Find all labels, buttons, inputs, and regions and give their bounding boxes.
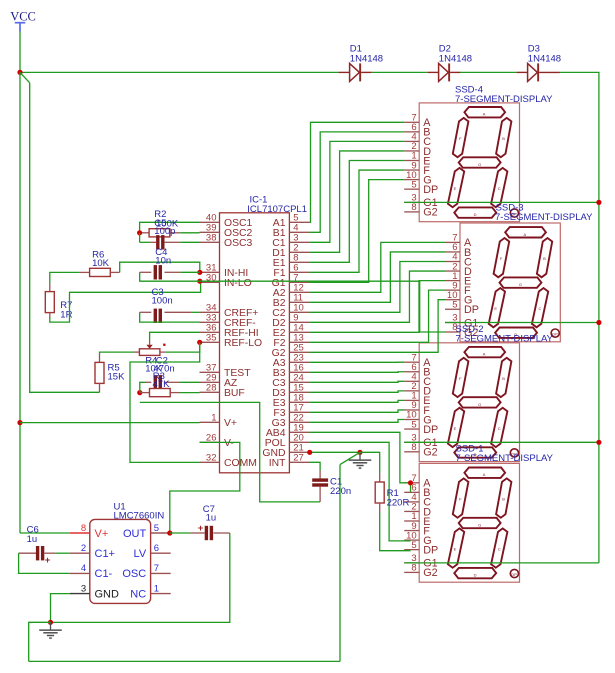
junction U1 ground	[48, 620, 53, 625]
wire D2-D3	[460, 71, 517, 73]
wire AZ riser	[140, 382, 146, 392]
svg-text:10n: 10n	[155, 256, 171, 267]
power terminal VCC	[10, 10, 36, 32]
junction OSC node	[137, 230, 142, 235]
wire IC POL to SSD-1 G	[309, 442, 410, 541]
svg-text:G2: G2	[423, 447, 437, 459]
junction R3 node	[137, 390, 142, 395]
svg-text:2: 2	[81, 543, 86, 554]
wire REF-LO to COMM	[130, 342, 200, 462]
svg-text:IN-LO: IN-LO	[224, 278, 252, 289]
wire R3 to IC BUF	[180, 392, 200, 394]
wire C4 right to IN-HI	[180, 271, 200, 273]
wire SSD-1 G1 to right rail	[404, 562, 599, 564]
svg-text:C: C	[498, 547, 501, 552]
wire IC INT to C1	[309, 462, 320, 470]
svg-text:E: E	[454, 547, 457, 552]
svg-text:10K: 10K	[92, 258, 110, 269]
wire IC C3 to SSD-2 C	[309, 381, 404, 382]
resistor R6 10K	[80, 249, 120, 276]
svg-text:INT: INT	[269, 458, 286, 469]
svg-text:OSC: OSC	[122, 568, 146, 580]
wire VCC rail to U1 V+	[20, 532, 70, 534]
wire IC E2 to SSD-3 E	[309, 281, 445, 333]
svg-text:6: 6	[154, 543, 159, 554]
svg-text:A: A	[483, 472, 486, 477]
capacitor C2 470n	[146, 375, 180, 389]
wire left drop to bottom rail	[339, 465, 341, 662]
svg-text:+: +	[198, 523, 204, 534]
wire OSC1-OSC3 link	[139, 233, 141, 243]
svg-text:GND: GND	[95, 588, 120, 600]
junction right rail SSD-2	[596, 440, 601, 445]
ground symbol (U1)	[50, 622, 52, 629]
wire right vertical rail from D3 cathode	[560, 72, 599, 563]
svg-text:5: 5	[411, 540, 416, 551]
svg-text:B: B	[543, 256, 546, 261]
svg-text:220R: 220R	[387, 498, 410, 509]
svg-text:1u: 1u	[206, 512, 217, 523]
wire IN-LO to SSD-3 G2	[200, 281, 445, 332]
svg-text:E: E	[454, 186, 457, 191]
svg-text:8: 8	[411, 202, 416, 213]
svg-text:7: 7	[154, 563, 159, 574]
IC U1 LMC7660IN	[70, 502, 171, 604]
svg-text:G2: G2	[423, 207, 437, 219]
wire SSD-2 G1 to right rail	[404, 441, 599, 443]
svg-text:B: B	[502, 136, 505, 141]
wire IC G3 to SSD-2 G	[309, 420, 404, 423]
wire R6 left to R7	[50, 272, 80, 283]
wire diagonal to rail 2	[20, 72, 30, 82]
svg-text:7-SEGMENT-DISPLAY: 7-SEGMENT-DISPLAY	[495, 212, 593, 223]
ground symbol (main)	[359, 452, 361, 459]
svg-text:COMM: COMM	[224, 458, 257, 469]
wire IC G2 to SSD-3 G	[309, 300, 445, 353]
7-segment display SSD-3	[445, 223, 560, 342]
svg-text:REF-LO: REF-LO	[224, 338, 262, 349]
wire IC C2 to SSD-3 C	[309, 262, 445, 313]
svg-text:G2: G2	[423, 567, 437, 579]
wire U1 GND down	[51, 594, 70, 623]
wire pot left to R5	[100, 351, 134, 354]
wire pot right to REF-LO	[166, 342, 200, 352]
svg-text:G: G	[478, 523, 481, 528]
wire IC D1 to SSD-4 D	[309, 151, 404, 252]
diode D2 1N4148	[428, 44, 472, 82]
capacitor C4 10n	[140, 247, 181, 280]
svg-text:8: 8	[411, 442, 416, 453]
svg-text:100n: 100n	[152, 296, 173, 307]
capacitor C6 1u	[19, 524, 56, 566]
wire IC F2 to SSD-3 F	[309, 290, 445, 342]
junction IN-LO	[197, 279, 202, 284]
svg-text:A: A	[483, 112, 486, 117]
svg-text:8: 8	[81, 523, 86, 534]
wire IC V- to U1 OUT	[170, 442, 240, 533]
wire ground to R1	[360, 452, 380, 473]
svg-text:15K: 15K	[108, 371, 126, 382]
wire SSD-4 G1 to right rail	[404, 201, 599, 203]
junction ground node	[357, 450, 362, 455]
wire IC E3 to SSD-2 E	[309, 400, 404, 402]
wire IC A3 to SSD-2 A	[309, 361, 404, 363]
wire C7 right to ground	[51, 533, 230, 622]
junction VCC rail	[17, 70, 22, 75]
wire VCC stem	[19, 32, 21, 73]
wire IC OSC1	[140, 222, 200, 233]
svg-text:C: C	[539, 306, 542, 311]
wire C4 left to IN-LO row	[140, 272, 200, 281]
wire R1 to SSD-1 DP	[380, 513, 411, 551]
wire SSD-3 G1 to right rail	[445, 322, 599, 324]
wire left rail 1 (VCC down to U1 V+)	[19, 72, 21, 533]
svg-text:5: 5	[411, 419, 416, 430]
svg-text:D: D	[474, 212, 477, 217]
svg-text:DP: DP	[552, 332, 558, 337]
svg-text:47K: 47K	[153, 379, 171, 390]
svg-text:7-SEGMENT-DISPLAY: 7-SEGMENT-DISPLAY	[455, 94, 553, 105]
svg-text:DP: DP	[423, 424, 438, 436]
svg-text:1u: 1u	[27, 534, 38, 545]
svg-text:V+: V+	[224, 418, 237, 429]
svg-text:5: 5	[154, 523, 159, 534]
svg-text:1: 1	[154, 583, 159, 594]
wire IC GND to ground	[309, 451, 360, 453]
svg-text:E: E	[494, 306, 497, 311]
junction V+ tap	[17, 420, 22, 425]
svg-text:VCC: VCC	[10, 10, 36, 24]
svg-text:OSC3: OSC3	[224, 238, 253, 249]
wire IC B3 to SSD-2 B	[309, 371, 404, 374]
wire IC A2 to SSD-3 A	[309, 242, 445, 292]
7-segment display SSD-2	[404, 343, 519, 462]
wire IC C1 to SSD-4 C	[309, 141, 404, 242]
svg-text:7-SEGMENT-DISPLAY: 7-SEGMENT-DISPLAY	[456, 334, 554, 345]
resistor R7 1R	[45, 284, 72, 321]
wire IC F1 to SSD-4 F	[309, 170, 404, 272]
svg-text:1N4148: 1N4148	[439, 54, 472, 65]
svg-text:D: D	[474, 573, 477, 578]
IC U IC-1 ICL7107CPL1	[200, 195, 310, 473]
svg-text:DP: DP	[423, 544, 438, 556]
svg-text:38: 38	[206, 233, 217, 244]
svg-text:32: 32	[206, 453, 217, 464]
wire IC AB4 to SSD-1 A/B	[309, 432, 410, 483]
wire IC REF-HI to pot wiper	[150, 332, 200, 340]
wire C6 right to U1 C1+	[56, 552, 70, 554]
diode D1 1N4148	[339, 44, 383, 82]
svg-text:5: 5	[411, 179, 416, 190]
svg-text:1R: 1R	[60, 309, 72, 320]
wire R6 to IN-HI (detour)	[120, 262, 200, 272]
junction U1 OUT	[167, 530, 172, 535]
wire C3 right to CREF+	[191, 311, 199, 313]
wire IC B1 to SSD-4 B	[309, 132, 404, 232]
wire C2 to IC AZ	[180, 381, 200, 383]
wire bottom rail	[29, 660, 340, 662]
labels R4 C2 10K 470n R3 47K	[145, 356, 174, 390]
svg-text:NC: NC	[130, 588, 146, 600]
svg-text:A: A	[483, 352, 486, 357]
wire top VCC rail to D1	[20, 71, 339, 73]
junction SSD-1 A	[408, 480, 413, 485]
svg-text:G: G	[519, 282, 522, 287]
labels R2 C5 100K 100p	[154, 209, 179, 237]
junction IN-HI	[197, 270, 202, 275]
wire D1-D2	[371, 71, 428, 73]
resistor R2 100K	[140, 229, 181, 237]
diode D3 1N4148	[517, 44, 561, 82]
wire left rail 2 (VCC to R5 bottom)	[30, 83, 100, 393]
capacitor C5 100p	[140, 235, 181, 249]
svg-text:DP: DP	[464, 304, 479, 316]
wire IC F3 to SSD-2 F	[309, 410, 404, 412]
wire C1 bottom to BUF net	[140, 402, 320, 502]
wire C6 left to U1 C1-	[19, 553, 70, 573]
svg-text:BUF: BUF	[224, 388, 245, 399]
wire SSD-1 A to B link	[410, 483, 412, 493]
junction IC GND	[307, 450, 312, 455]
svg-text:G: G	[478, 402, 481, 407]
svg-text:DP: DP	[511, 572, 517, 577]
svg-text:100p: 100p	[154, 226, 175, 237]
capacitor C7 1u	[170, 504, 230, 540]
wire R2 to IC OSC2	[180, 232, 199, 234]
wire IC D3 to SSD-2 D	[309, 391, 404, 392]
svg-text:B: B	[502, 376, 505, 381]
wire IC A1 to SSD-4 A	[309, 122, 404, 222]
wire diagonal ground to bottom rail	[340, 452, 360, 464]
svg-text:C: C	[498, 186, 501, 191]
svg-text:C1+: C1+	[95, 548, 116, 560]
svg-text:4: 4	[81, 563, 86, 574]
resistor R3 47K	[140, 389, 180, 397]
7-segment display SSD-4	[404, 103, 519, 222]
svg-text:7-SEGMENT-DISPLAY: 7-SEGMENT-DISPLAY	[456, 453, 554, 464]
svg-text:E: E	[454, 426, 457, 431]
svg-text:LV: LV	[134, 548, 147, 560]
wire IC G1 to SSD-4 G	[309, 180, 404, 283]
svg-text:8: 8	[411, 563, 416, 574]
svg-text:C1-: C1-	[95, 568, 113, 580]
potentiometer R4 10K	[133, 340, 166, 355]
svg-text:27: 27	[293, 453, 304, 464]
svg-text:V-: V-	[224, 438, 234, 449]
svg-text:35: 35	[206, 333, 217, 344]
svg-text:A: A	[524, 232, 527, 237]
svg-text:OUT: OUT	[123, 528, 147, 540]
junction right rail SSD-3	[596, 320, 601, 325]
svg-text:V+: V+	[95, 528, 109, 540]
svg-text:DP: DP	[423, 184, 438, 196]
capacitor C3 100n	[140, 287, 192, 323]
svg-text:1: 1	[211, 413, 216, 424]
wire IC E1 to SSD-4 E	[309, 161, 404, 263]
svg-text:28: 28	[206, 383, 217, 394]
junction REF-LO	[197, 340, 202, 345]
svg-text:1N4148: 1N4148	[350, 54, 383, 65]
wire C3 left to CREF-	[140, 312, 200, 322]
resistor R1 220R	[375, 473, 409, 513]
junction right rail SSD-4	[596, 200, 601, 205]
wire ground to bottom rail	[29, 622, 51, 661]
7-segment display SSD-1	[404, 463, 519, 582]
svg-text:G: G	[478, 162, 481, 167]
wire IC D2 to SSD-3 D	[309, 271, 445, 322]
svg-text:3: 3	[81, 583, 86, 594]
svg-text:1N4148: 1N4148	[528, 54, 561, 65]
svg-text:+: +	[45, 555, 51, 566]
svg-text:C: C	[498, 426, 501, 431]
svg-text:220n: 220n	[330, 486, 351, 497]
capacitor C1 220n	[312, 471, 351, 502]
wire IC B2 to SSD-3 B	[309, 252, 445, 302]
svg-text:B: B	[502, 497, 505, 502]
wire R7 bottom to IN-LO	[50, 281, 201, 322]
svg-text:5: 5	[452, 299, 457, 310]
resistor R5 15K	[95, 353, 125, 392]
wire C5 to IC OSC3	[180, 241, 199, 243]
wire VCC rail to IC V+	[20, 422, 200, 424]
